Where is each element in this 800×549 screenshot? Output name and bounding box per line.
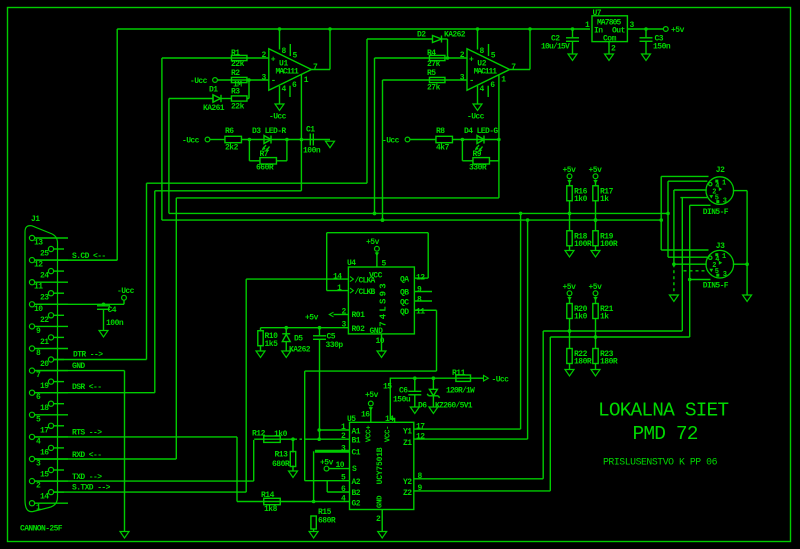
svg-text:150n: 150n bbox=[653, 43, 671, 52]
svg-text:6: 6 bbox=[490, 81, 495, 90]
svg-text:1: 1 bbox=[341, 423, 346, 432]
svg-text:3: 3 bbox=[723, 198, 727, 206]
svg-text:18: 18 bbox=[40, 404, 49, 413]
svg-text:R3: R3 bbox=[231, 88, 240, 97]
svg-text:14: 14 bbox=[333, 273, 342, 282]
svg-text:12: 12 bbox=[34, 261, 43, 270]
svg-text:5: 5 bbox=[293, 52, 298, 61]
svg-text:9: 9 bbox=[418, 484, 423, 493]
svg-text:6: 6 bbox=[36, 393, 41, 402]
svg-text:PRISLUSENSTVO K PP 06: PRISLUSENSTVO K PP 06 bbox=[603, 457, 718, 468]
svg-text:1k0: 1k0 bbox=[274, 430, 288, 439]
svg-text:J1: J1 bbox=[31, 215, 40, 224]
svg-text:-Ucc: -Ucc bbox=[182, 137, 200, 146]
svg-text:10u/15V: 10u/15V bbox=[541, 43, 570, 52]
svg-text:KA262: KA262 bbox=[444, 31, 466, 40]
svg-text:9: 9 bbox=[417, 286, 422, 295]
svg-text:1: 1 bbox=[36, 504, 41, 513]
svg-text:7: 7 bbox=[511, 63, 516, 72]
svg-text:330p: 330p bbox=[326, 341, 344, 350]
svg-text:J2: J2 bbox=[716, 166, 725, 175]
svg-text:S: S bbox=[352, 465, 357, 474]
svg-text:14: 14 bbox=[40, 493, 49, 502]
svg-text:+5v: +5v bbox=[365, 391, 379, 400]
svg-text:5: 5 bbox=[36, 415, 41, 424]
svg-text:PMD 72: PMD 72 bbox=[633, 423, 698, 445]
svg-text:LOKALNA SIET: LOKALNA SIET bbox=[598, 400, 728, 422]
svg-text:D1: D1 bbox=[209, 86, 218, 95]
svg-text:2: 2 bbox=[36, 482, 41, 491]
svg-text:20: 20 bbox=[40, 360, 49, 369]
svg-text:4: 4 bbox=[341, 495, 346, 504]
svg-text:6: 6 bbox=[292, 81, 297, 90]
svg-text:74LS93: 74LS93 bbox=[379, 281, 389, 327]
svg-text:Z1: Z1 bbox=[403, 439, 412, 448]
svg-text:RXD <--: RXD <-- bbox=[72, 451, 101, 460]
svg-text:1: 1 bbox=[722, 179, 726, 187]
svg-text:1: 1 bbox=[722, 253, 726, 261]
svg-text:S.CD <--: S.CD <-- bbox=[72, 252, 106, 261]
svg-text:Y1: Y1 bbox=[403, 428, 412, 437]
svg-text:2: 2 bbox=[341, 432, 346, 441]
svg-text:5: 5 bbox=[491, 52, 496, 61]
svg-text:R7: R7 bbox=[260, 150, 269, 159]
svg-text:4: 4 bbox=[36, 437, 41, 446]
svg-text:R13: R13 bbox=[275, 451, 289, 460]
svg-text:TXD -->: TXD --> bbox=[72, 473, 102, 482]
svg-text:330R: 330R bbox=[469, 164, 487, 173]
svg-text:C4: C4 bbox=[108, 306, 117, 315]
svg-text:1k8: 1k8 bbox=[264, 505, 278, 514]
svg-text:22k: 22k bbox=[231, 60, 245, 69]
svg-text:+5v: +5v bbox=[305, 314, 319, 323]
svg-text:14: 14 bbox=[385, 415, 394, 424]
svg-text:23: 23 bbox=[40, 294, 49, 303]
svg-text:DIN5-F: DIN5-F bbox=[703, 282, 729, 291]
svg-text:1k5: 1k5 bbox=[265, 340, 279, 349]
svg-text:100n: 100n bbox=[106, 319, 124, 328]
svg-text:MAC111: MAC111 bbox=[474, 68, 498, 77]
svg-text:+5v: +5v bbox=[671, 26, 685, 35]
svg-text:DSR <--: DSR <-- bbox=[72, 383, 101, 392]
svg-text:12: 12 bbox=[416, 274, 425, 283]
svg-text:15: 15 bbox=[383, 383, 392, 392]
svg-text:B2: B2 bbox=[352, 489, 361, 498]
svg-text:QA: QA bbox=[400, 276, 409, 285]
svg-text:C1: C1 bbox=[306, 126, 315, 135]
svg-text:R8: R8 bbox=[436, 127, 445, 136]
svg-text:22k: 22k bbox=[231, 103, 245, 112]
svg-text:120R/1W: 120R/1W bbox=[446, 387, 475, 396]
svg-text:1: 1 bbox=[337, 284, 342, 293]
svg-text:C6: C6 bbox=[399, 387, 408, 396]
svg-text:KZ260/5V1: KZ260/5V1 bbox=[435, 402, 473, 411]
svg-text:3: 3 bbox=[262, 74, 267, 83]
svg-text:+: + bbox=[271, 56, 276, 65]
svg-text:680R: 680R bbox=[318, 517, 336, 526]
svg-text:A1: A1 bbox=[352, 428, 361, 437]
svg-text:U5: U5 bbox=[347, 415, 356, 424]
svg-text:180R: 180R bbox=[600, 358, 618, 367]
svg-text:C1: C1 bbox=[352, 449, 361, 458]
svg-text:1k0: 1k0 bbox=[574, 195, 588, 204]
svg-text:Z2: Z2 bbox=[403, 489, 412, 498]
svg-text:KA262: KA262 bbox=[289, 346, 311, 355]
svg-text:D4 LED-G: D4 LED-G bbox=[464, 127, 498, 136]
svg-text:10: 10 bbox=[336, 461, 345, 470]
svg-text:VCC+: VCC+ bbox=[366, 425, 374, 442]
svg-text:7: 7 bbox=[313, 63, 318, 72]
svg-text:660R: 660R bbox=[256, 164, 274, 173]
svg-text:10: 10 bbox=[34, 305, 43, 314]
svg-text:6: 6 bbox=[341, 485, 346, 494]
svg-text:A2: A2 bbox=[352, 478, 361, 487]
svg-text:Y2: Y2 bbox=[403, 478, 412, 487]
svg-text:2: 2 bbox=[262, 51, 267, 60]
svg-text:2: 2 bbox=[342, 308, 347, 317]
svg-text:4: 4 bbox=[282, 85, 287, 94]
svg-text:10: 10 bbox=[376, 337, 385, 346]
svg-text:/CLKB: /CLKB bbox=[355, 288, 376, 297]
svg-text:R5: R5 bbox=[427, 69, 436, 78]
svg-text:150u: 150u bbox=[393, 396, 411, 405]
svg-text:3: 3 bbox=[342, 321, 347, 330]
svg-text:15: 15 bbox=[40, 471, 49, 480]
svg-text:4: 4 bbox=[480, 85, 485, 94]
svg-text:1k: 1k bbox=[600, 313, 609, 322]
svg-text:19: 19 bbox=[40, 382, 49, 391]
svg-text:RTS -->: RTS --> bbox=[72, 429, 102, 438]
svg-text:100R: 100R bbox=[600, 240, 618, 249]
svg-text:9: 9 bbox=[36, 327, 41, 336]
svg-text:R14: R14 bbox=[261, 491, 275, 500]
svg-text:680R: 680R bbox=[272, 460, 290, 469]
svg-text:1k0: 1k0 bbox=[574, 313, 588, 322]
svg-text:J3: J3 bbox=[716, 242, 725, 251]
svg-text:4k7: 4k7 bbox=[436, 144, 450, 153]
svg-text:1k: 1k bbox=[600, 195, 609, 204]
svg-text:CANNON-25F: CANNON-25F bbox=[20, 525, 63, 534]
svg-text:-: - bbox=[271, 76, 276, 86]
svg-text:17: 17 bbox=[416, 423, 425, 432]
svg-text:-Ucc: -Ucc bbox=[382, 137, 400, 146]
svg-text:1: 1 bbox=[304, 76, 309, 85]
svg-text:/CLKA: /CLKA bbox=[355, 277, 376, 286]
svg-text:24: 24 bbox=[40, 272, 49, 281]
svg-text:R1: R1 bbox=[231, 49, 240, 58]
svg-text:-Ucc: -Ucc bbox=[190, 77, 208, 86]
svg-text:8: 8 bbox=[36, 349, 41, 358]
svg-text:QC: QC bbox=[400, 299, 409, 308]
svg-text:21: 21 bbox=[40, 338, 49, 347]
svg-text:2: 2 bbox=[611, 45, 616, 54]
svg-text:GND: GND bbox=[72, 362, 85, 371]
svg-text:180R: 180R bbox=[574, 358, 592, 367]
svg-text:QB: QB bbox=[400, 289, 409, 298]
svg-text:7: 7 bbox=[36, 371, 41, 380]
svg-text:R12: R12 bbox=[252, 430, 266, 439]
svg-text:3: 3 bbox=[630, 21, 635, 30]
svg-text:GND: GND bbox=[377, 495, 385, 508]
svg-text:13: 13 bbox=[34, 239, 43, 248]
svg-text:MAC111: MAC111 bbox=[276, 68, 300, 77]
svg-text:VCC-: VCC- bbox=[385, 426, 393, 442]
svg-text:11: 11 bbox=[416, 308, 425, 317]
svg-text:-Ucc: -Ucc bbox=[269, 113, 287, 122]
svg-text:DTR -->: DTR --> bbox=[73, 351, 103, 360]
svg-text:25: 25 bbox=[40, 250, 49, 259]
svg-text:R02: R02 bbox=[352, 325, 366, 334]
svg-text:B1: B1 bbox=[352, 437, 361, 446]
svg-text:R11: R11 bbox=[452, 369, 466, 378]
svg-text:2k2: 2k2 bbox=[225, 144, 239, 153]
svg-text:5: 5 bbox=[382, 260, 387, 269]
svg-text:22: 22 bbox=[40, 316, 49, 325]
svg-text:100n: 100n bbox=[303, 147, 321, 156]
svg-text:2: 2 bbox=[460, 51, 465, 60]
svg-text:17: 17 bbox=[40, 426, 49, 435]
svg-text:UCY7501B: UCY7501B bbox=[376, 447, 385, 484]
svg-text:U4: U4 bbox=[347, 259, 356, 268]
svg-text:DIN5-F: DIN5-F bbox=[703, 208, 729, 217]
svg-text:R4: R4 bbox=[427, 49, 436, 58]
svg-text:-Ucc: -Ucc bbox=[492, 376, 510, 385]
svg-text:1: 1 bbox=[501, 76, 506, 85]
svg-text:27k: 27k bbox=[427, 84, 441, 93]
svg-text:D6: D6 bbox=[418, 402, 427, 411]
svg-text:1: 1 bbox=[585, 21, 590, 30]
svg-text:11: 11 bbox=[34, 283, 43, 292]
svg-text:S.TXD -->: S.TXD --> bbox=[72, 484, 111, 493]
svg-text:KA261: KA261 bbox=[203, 104, 225, 113]
svg-text:+5v: +5v bbox=[366, 238, 380, 247]
svg-text:-Ucc: -Ucc bbox=[117, 287, 135, 296]
svg-text:G2: G2 bbox=[352, 499, 361, 508]
svg-text:8: 8 bbox=[417, 296, 422, 305]
svg-text:R2: R2 bbox=[231, 69, 240, 78]
svg-text:3: 3 bbox=[341, 444, 346, 453]
svg-text:D3 LED-R: D3 LED-R bbox=[252, 127, 286, 136]
svg-text:3: 3 bbox=[460, 74, 465, 83]
svg-text:Com: Com bbox=[603, 35, 617, 44]
svg-text:D2: D2 bbox=[417, 31, 426, 40]
svg-text:12: 12 bbox=[416, 433, 425, 442]
svg-text:D5: D5 bbox=[294, 335, 303, 344]
svg-text:16: 16 bbox=[40, 448, 49, 457]
svg-text:U7: U7 bbox=[593, 9, 602, 18]
svg-text:16: 16 bbox=[361, 411, 370, 420]
svg-text:R6: R6 bbox=[225, 127, 234, 136]
svg-text:2: 2 bbox=[376, 515, 381, 524]
svg-text:-Ucc: -Ucc bbox=[467, 113, 485, 122]
svg-text:+: + bbox=[469, 56, 474, 65]
svg-text:5: 5 bbox=[341, 474, 346, 483]
svg-text:R01: R01 bbox=[352, 311, 366, 320]
svg-text:3: 3 bbox=[36, 460, 41, 469]
svg-text:8: 8 bbox=[282, 47, 287, 56]
svg-text:100R: 100R bbox=[574, 240, 592, 249]
svg-text:3: 3 bbox=[723, 271, 727, 279]
svg-text:27k: 27k bbox=[427, 60, 441, 69]
svg-text:8: 8 bbox=[418, 472, 423, 481]
svg-text:-: - bbox=[469, 76, 474, 86]
svg-text:In: In bbox=[594, 27, 603, 36]
svg-text:QD: QD bbox=[400, 308, 409, 317]
svg-text:R9: R9 bbox=[473, 150, 482, 159]
svg-text:8: 8 bbox=[480, 47, 485, 56]
